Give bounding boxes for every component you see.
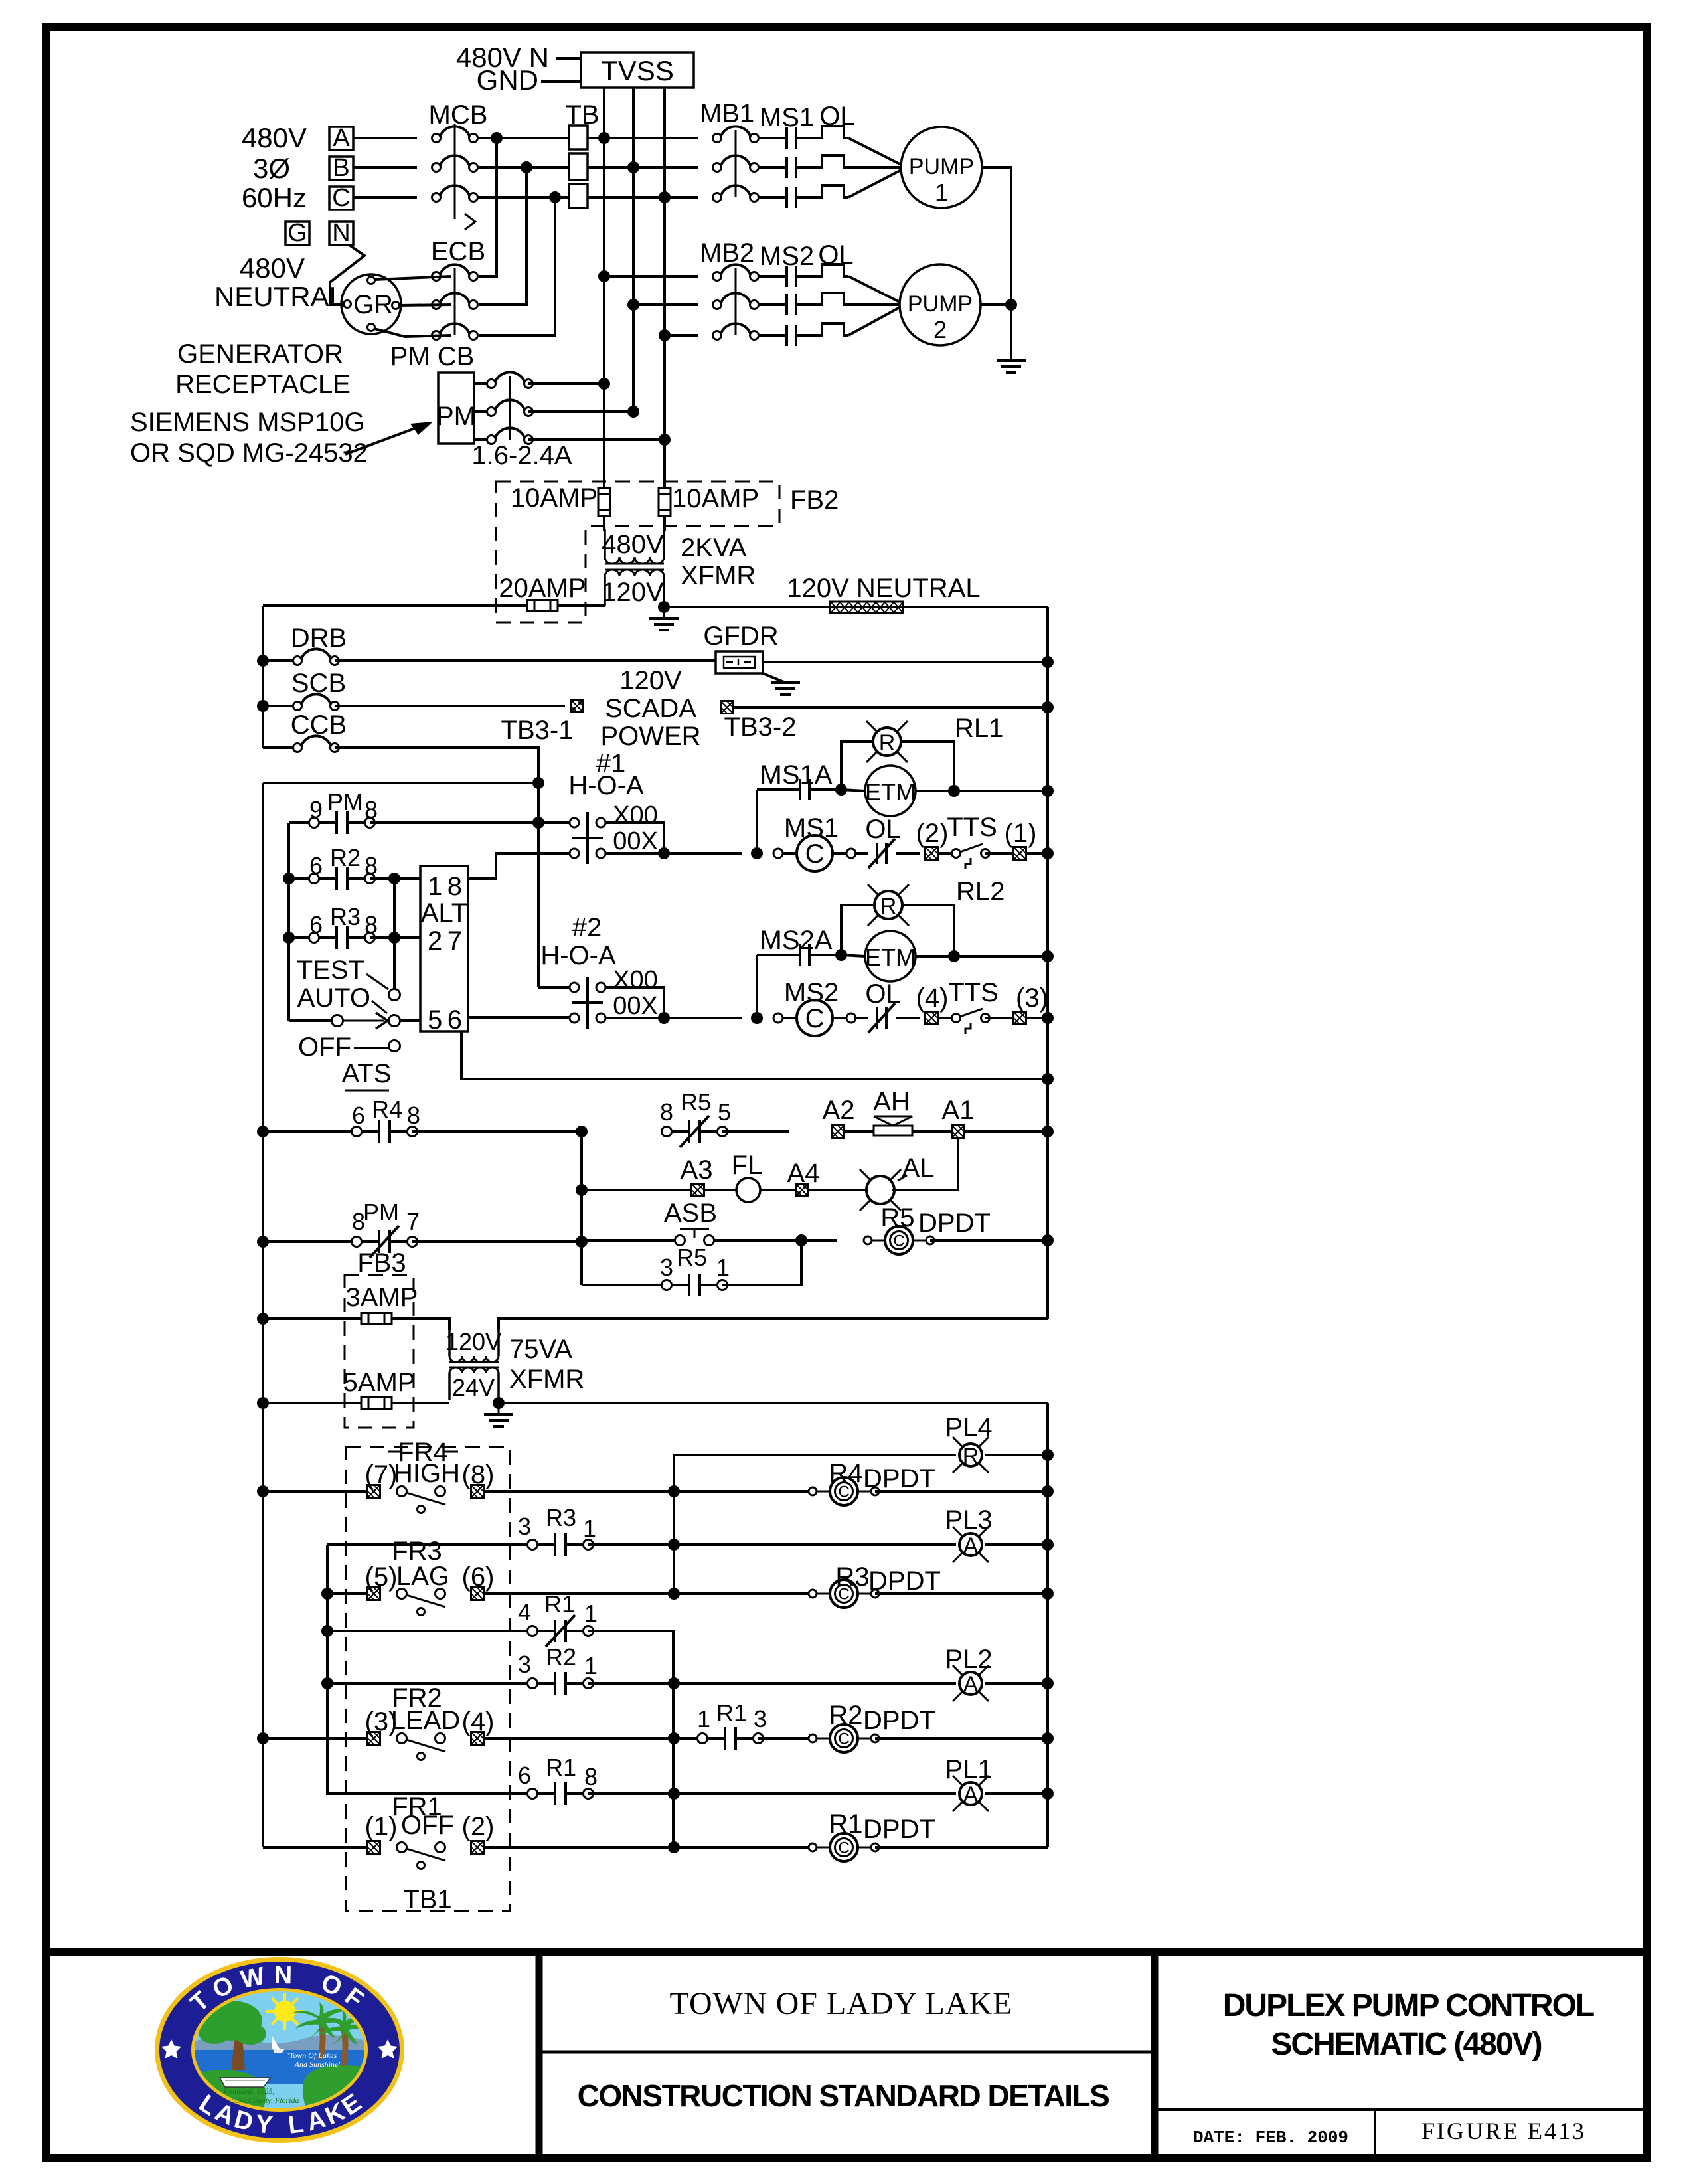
- svg-text:FB2: FB2: [790, 485, 839, 515]
- node N: [329, 222, 353, 245]
- relay light RL2: [841, 905, 874, 955]
- svg-text:GND: GND: [477, 64, 538, 96]
- svg-text:24V: 24V: [452, 1374, 495, 1401]
- svg-text:FL: FL: [732, 1151, 763, 1180]
- svg-text:RL2: RL2: [956, 877, 1005, 906]
- svg-text:DPDT: DPDT: [868, 1566, 941, 1596]
- thermal switch TTS 2: [937, 1017, 956, 1019]
- svg-text:XFMR: XFMR: [509, 1365, 584, 1394]
- rung MS2 coil: [605, 1017, 742, 1019]
- breaker CCB rung: [263, 746, 297, 749]
- wire ALT pin7 to HOA2: [468, 1016, 570, 1019]
- svg-text:TTS: TTS: [948, 978, 999, 1007]
- pushbutton ASB: [582, 1239, 675, 1242]
- title block divider 2: [1151, 1952, 1159, 2158]
- terminal (2): [926, 847, 938, 860]
- svg-text:ECB: ECB: [431, 237, 485, 266]
- svg-text:10AMP: 10AMP: [511, 483, 598, 513]
- svg-text:R4: R4: [829, 1459, 862, 1488]
- junction 24V secondary: [493, 1397, 505, 1409]
- svg-text:TOWN OF LADY LAKE: TOWN OF LADY LAKE: [670, 1986, 1013, 2021]
- wire phase B to MCB: [353, 166, 417, 169]
- motor PUMP 1: [901, 127, 982, 208]
- terminal TB3-2: [721, 701, 734, 714]
- wire ECB to A: [479, 138, 497, 276]
- wire TVSS drop 3: [663, 88, 666, 488]
- svg-text:TB3-1: TB3-1: [501, 716, 574, 745]
- breaker DRB rung: [257, 655, 269, 667]
- svg-text:N: N: [332, 219, 350, 247]
- wire ECB to B: [479, 167, 526, 305]
- overload contact OL 1: [854, 852, 868, 855]
- wire GR bottom to ECB: [374, 329, 451, 337]
- svg-text:SIEMENS MSP10G: SIEMENS MSP10G: [130, 408, 364, 437]
- coil MS2: [773, 1000, 856, 1036]
- svg-text:OFF: OFF: [298, 1033, 351, 1062]
- wire to 75VA primary: [392, 1319, 449, 1330]
- svg-text:120V: 120V: [602, 578, 664, 607]
- svg-text:6: 6: [309, 852, 323, 879]
- svg-text:C: C: [332, 184, 350, 212]
- svg-text:PM: PM: [436, 402, 476, 431]
- svg-text:CCB: CCB: [291, 711, 347, 740]
- svg-text:10AMP: 10AMP: [672, 484, 759, 513]
- wire phase A to MCB: [353, 137, 417, 139]
- svg-text:DPDT: DPDT: [918, 1209, 991, 1238]
- svg-text:8: 8: [660, 1098, 673, 1126]
- svg-text:OL: OL: [865, 815, 900, 844]
- wire MCB-C to TB: [477, 196, 569, 199]
- wires converge to pump 2: [848, 276, 900, 302]
- contact R1 4-1 NC rung: [321, 1625, 333, 1637]
- transformer 75VA primary 120V: [448, 1330, 451, 1356]
- coil R5 DPDT: [801, 1239, 837, 1242]
- svg-text:PM: PM: [327, 788, 363, 815]
- svg-text:ETM: ETM: [865, 778, 916, 805]
- svg-text:DRB: DRB: [291, 624, 347, 653]
- svg-text:R1: R1: [716, 1699, 747, 1726]
- title block right divider: [1155, 2108, 1647, 2111]
- wires converge to pump 1: [848, 138, 901, 165]
- svg-text:9: 9: [309, 796, 323, 823]
- terminal A4: [760, 1189, 796, 1191]
- svg-text:MS1A: MS1A: [760, 760, 833, 790]
- contact R5 3-1 rung: [582, 1284, 661, 1286]
- wire TVSS drop 1: [603, 88, 605, 488]
- pilot light PL2: [674, 1682, 956, 1685]
- switch position TEST: [389, 989, 400, 1001]
- wire taps to MB2: [604, 275, 698, 278]
- node A: [329, 127, 353, 150]
- wire GR top to ECB: [374, 276, 451, 280]
- terminal strip TB1 dashed: [346, 1447, 510, 1911]
- svg-text:1: 1: [697, 1705, 710, 1732]
- svg-text:X00: X00: [613, 801, 658, 829]
- svg-text:ATS: ATS: [342, 1059, 392, 1088]
- svg-text:3Ø: 3Ø: [253, 153, 290, 184]
- float switch FR4 HIGH rung: [257, 1485, 269, 1497]
- node G: [285, 222, 309, 245]
- wire A1 to AL: [892, 1137, 958, 1190]
- svg-text:60Hz: 60Hz: [242, 182, 307, 213]
- wire MCB-A to TB: [477, 137, 569, 139]
- svg-text:H-O-A: H-O-A: [540, 941, 616, 970]
- svg-text:X00: X00: [613, 966, 658, 994]
- wire GFDR to rail: [763, 661, 1048, 663]
- junction TVSS-B: [627, 161, 639, 173]
- svg-text:(2): (2): [462, 1812, 495, 1841]
- svg-text:DPDT: DPDT: [863, 1706, 935, 1735]
- float switch FR1 OFF rung: [263, 1846, 368, 1849]
- contact R3 6-8 rung: [283, 932, 295, 944]
- rung FL light: [576, 1184, 588, 1196]
- wire ECB to C: [479, 197, 555, 335]
- terminal A3: [692, 1184, 704, 1197]
- contact PM 8-7 NC rung: [257, 1236, 269, 1248]
- wire pump2 to ground: [981, 303, 1011, 306]
- ground symbol 75VA: [498, 1403, 500, 1414]
- junction PM row1: [598, 378, 610, 390]
- junction A-ECB: [491, 132, 503, 144]
- svg-text:MS1: MS1: [784, 813, 839, 843]
- svg-text:R3: R3: [546, 1504, 576, 1531]
- fuse 10AMP phase A: [598, 487, 610, 517]
- contact R2 6-8 rung: [283, 873, 295, 884]
- svg-text:PL2: PL2: [945, 1645, 992, 1674]
- fuse block FB3 dashed: [345, 1275, 414, 1428]
- svg-text:00X: 00X: [613, 992, 658, 1020]
- ground symbol pumps: [997, 361, 1026, 373]
- svg-text:6: 6: [352, 1102, 365, 1129]
- svg-text:(1): (1): [1005, 819, 1037, 848]
- svg-text:MB2: MB2: [700, 238, 754, 268]
- left selector column: [287, 823, 290, 1021]
- coil MS1: [773, 835, 856, 871]
- meter ETM 2: [841, 955, 865, 956]
- svg-text:R3: R3: [330, 903, 361, 930]
- svg-text:ETM: ETM: [865, 944, 916, 971]
- svg-text:MB1: MB1: [700, 99, 754, 128]
- svg-text:TVSS: TVSS: [601, 55, 674, 86]
- svg-text:PM: PM: [363, 1199, 399, 1226]
- svg-text:(1): (1): [365, 1812, 398, 1841]
- svg-text:MCB: MCB: [429, 100, 488, 129]
- svg-text:3: 3: [754, 1705, 767, 1732]
- wire TB3-2 to rail: [733, 706, 1048, 709]
- svg-text:R5: R5: [880, 1203, 914, 1232]
- title block mid divider: [539, 2051, 1155, 2054]
- wire TB to MB1: [588, 137, 698, 139]
- alarm light AL: [808, 1189, 870, 1191]
- pilot light PL4: [674, 1455, 956, 1491]
- svg-text:3: 3: [518, 1651, 531, 1678]
- wire MCB-B to TB: [477, 166, 569, 169]
- svg-text:CONSTRUCTION STANDARD DETAILS: CONSTRUCTION STANDARD DETAILS: [578, 2078, 1109, 2113]
- junction xfmr neutral: [658, 601, 670, 613]
- wire GR right to ECB: [399, 305, 451, 305]
- svg-text:A: A: [963, 1533, 979, 1558]
- svg-text:480V: 480V: [602, 530, 664, 559]
- svg-text:R: R: [880, 894, 897, 919]
- svg-text:NEUTRAL: NEUTRAL: [214, 281, 345, 312]
- vertical PL column segment B: [672, 1631, 675, 1847]
- rung MS1 coil: [605, 852, 742, 855]
- junction TVSS drop MB2 taps: [598, 270, 610, 282]
- svg-text:A: A: [333, 124, 350, 152]
- svg-text:7: 7: [447, 926, 462, 956]
- junction TVSS-A: [598, 132, 610, 144]
- left rail 120V upper: [262, 606, 264, 748]
- svg-text:R1: R1: [829, 1809, 862, 1839]
- right rail 24V: [1046, 1403, 1049, 1847]
- wires fuses to xfmr: [603, 517, 605, 531]
- svg-text:1: 1: [428, 872, 442, 901]
- thermal switch TTS 1: [937, 852, 956, 855]
- transformer 2KVA secondary 120V: [605, 570, 664, 576]
- svg-text:LAG: LAG: [396, 1562, 449, 1591]
- svg-text:DPDT: DPDT: [863, 1815, 935, 1844]
- wire primary right to rail: [499, 1319, 1048, 1330]
- svg-text:1: 1: [716, 1254, 730, 1281]
- test column: [393, 879, 396, 989]
- wire 120V neutral: [664, 606, 1048, 608]
- svg-text:OFF: OFF: [401, 1811, 454, 1840]
- svg-text:Y: Y: [254, 2110, 274, 2140]
- svg-text:"Town Of Lakes: "Town Of Lakes: [286, 2051, 337, 2060]
- switch position OFF: [389, 1041, 400, 1052]
- svg-text:5AMP: 5AMP: [343, 1368, 416, 1397]
- svg-text:6: 6: [518, 1762, 531, 1789]
- contact R2 3-1 rung: [321, 1677, 333, 1689]
- svg-text:B: B: [333, 154, 349, 182]
- svg-text:MS2: MS2: [784, 978, 839, 1007]
- title block divider 1: [536, 1952, 543, 2158]
- svg-text:(4): (4): [462, 1707, 495, 1736]
- svg-text:A2: A2: [823, 1096, 855, 1125]
- svg-text:1: 1: [584, 1600, 598, 1627]
- alarm column: [580, 1132, 583, 1285]
- svg-text:HIGH: HIGH: [394, 1459, 460, 1488]
- svg-text:3AMP: 3AMP: [346, 1283, 418, 1312]
- svg-text:N: N: [274, 1962, 292, 1989]
- coil R3 DPDT: [674, 1592, 813, 1595]
- contact R3 3-1 rung: [327, 1543, 532, 1546]
- svg-text:(6): (6): [462, 1562, 495, 1592]
- svg-text:PL3: PL3: [945, 1505, 992, 1535]
- svg-text:1.6-2.4A: 1.6-2.4A: [471, 441, 572, 470]
- svg-text:R: R: [963, 1444, 979, 1469]
- svg-text:R2: R2: [829, 1701, 862, 1730]
- svg-text:3: 3: [518, 1513, 531, 1540]
- svg-text:8: 8: [407, 1102, 420, 1129]
- wire X00 jog 2: [605, 987, 664, 1018]
- svg-text:#2: #2: [572, 913, 602, 942]
- TVSS surge suppressor: [581, 52, 694, 88]
- svg-text:75VA: 75VA: [509, 1335, 572, 1364]
- ground symbol xfmr: [663, 607, 665, 618]
- svg-text:MS2A: MS2A: [760, 926, 833, 955]
- node B: [329, 157, 353, 180]
- svg-text:ALT: ALT: [421, 898, 467, 928]
- svg-text:DUPLEX PUMP CONTROL: DUPLEX PUMP CONTROL: [1223, 1988, 1594, 2023]
- svg-text:R5: R5: [677, 1244, 707, 1271]
- svg-text:PUMP: PUMP: [908, 292, 973, 317]
- svg-text:8: 8: [584, 1763, 598, 1790]
- title block date/figure divider: [1374, 2110, 1376, 2158]
- svg-text:A: A: [963, 1672, 979, 1697]
- svg-text:TEST: TEST: [297, 956, 364, 985]
- contact R5 8-5 NC: [662, 1116, 728, 1147]
- contact MS2A rung: [756, 955, 758, 1018]
- svg-text:Founded: 1925,: Founded: 1925,: [223, 2086, 275, 2096]
- transformer 2KVA primary 480V: [604, 529, 606, 557]
- svg-text:DPDT: DPDT: [863, 1464, 935, 1493]
- wire X00 jog: [605, 823, 664, 853]
- svg-text:480V: 480V: [240, 252, 305, 284]
- svg-text:(2): (2): [916, 819, 949, 848]
- transformer 75VA secondary 24V: [449, 1367, 499, 1373]
- svg-text:8: 8: [364, 911, 378, 938]
- junction B-ECB: [521, 161, 532, 173]
- svg-text:H-O-A: H-O-A: [568, 771, 644, 800]
- svg-text:(7): (7): [365, 1460, 398, 1489]
- svg-text:XFMR: XFMR: [681, 561, 756, 590]
- fuse 3AMP: [257, 1313, 269, 1325]
- wire TVSS drop 2: [632, 88, 635, 412]
- terminal (4): [926, 1012, 938, 1025]
- coil R1 DPDT: [674, 1846, 813, 1849]
- svg-text:4: 4: [518, 1598, 531, 1626]
- svg-text:PL4: PL4: [945, 1413, 992, 1442]
- svg-text:2KVA: 2KVA: [681, 533, 747, 562]
- right rail neutral: [1046, 607, 1049, 1319]
- wire phase C to MCB: [353, 196, 417, 199]
- alternator relay ALT: [420, 866, 468, 1031]
- svg-text:480V: 480V: [242, 122, 307, 153]
- svg-text:AUTO: AUTO: [297, 983, 370, 1013]
- svg-text:OL: OL: [865, 979, 900, 1009]
- svg-text:R1: R1: [544, 1590, 575, 1618]
- svg-text:1: 1: [584, 1652, 598, 1679]
- junction PM row3: [659, 434, 671, 446]
- svg-text:8: 8: [447, 872, 462, 901]
- svg-text:R2: R2: [546, 1643, 576, 1671]
- svg-text:TTS: TTS: [947, 813, 997, 842]
- svg-text:OR SQD MG-24532: OR SQD MG-24532: [130, 438, 368, 467]
- svg-text:(5): (5): [365, 1562, 398, 1592]
- svg-text:A3: A3: [681, 1155, 713, 1185]
- svg-text:20AMP: 20AMP: [499, 574, 586, 603]
- svg-text:R4: R4: [372, 1096, 402, 1123]
- svg-text:DATE: FEB. 2009: DATE: FEB. 2009: [1193, 2128, 1348, 2147]
- relay light RL1: [841, 742, 872, 790]
- terminal (3): [1014, 1012, 1026, 1025]
- junction pump ground bus: [1005, 299, 1017, 311]
- selector switch HOA 1: [570, 812, 605, 864]
- generator receptacle GR: [341, 274, 401, 334]
- svg-text:(3): (3): [1016, 983, 1048, 1013]
- neutral hatched marker: [830, 602, 903, 613]
- svg-text:R2: R2: [330, 844, 361, 871]
- svg-text:FB3: FB3: [357, 1248, 406, 1278]
- svg-text:8: 8: [364, 852, 378, 879]
- svg-text:(4): (4): [916, 983, 949, 1013]
- svg-text:Lake County, Florida: Lake County, Florida: [230, 2096, 299, 2105]
- wire 24V to right rail: [499, 1402, 1048, 1404]
- svg-text:R1: R1: [546, 1754, 576, 1781]
- svg-text:120V: 120V: [445, 1328, 501, 1355]
- selector switch HOA 2: [538, 986, 570, 989]
- svg-text:RL1: RL1: [955, 714, 1003, 743]
- svg-text:G: G: [287, 219, 307, 247]
- title block top line: [42, 1948, 1651, 1956]
- coil R4 DPDT: [674, 1490, 813, 1493]
- PM CB contacts: [474, 382, 492, 385]
- terminal A2: [832, 1126, 845, 1138]
- svg-text:POWER: POWER: [600, 722, 700, 751]
- svg-text:8: 8: [364, 796, 378, 823]
- wire N to GR: [330, 245, 364, 305]
- wire to ground: [1010, 305, 1012, 361]
- svg-text:120V: 120V: [619, 666, 682, 695]
- svg-text:And Sunshine": And Sunshine": [294, 2060, 343, 2069]
- svg-text:A1: A1: [942, 1096, 975, 1125]
- svg-text:PL1: PL1: [945, 1755, 992, 1784]
- pilot light PL3: [674, 1543, 956, 1546]
- wire secondary hot with 20AMP fuse: [263, 604, 527, 607]
- wire pump1 to ground bus: [982, 167, 1011, 305]
- svg-text:AL: AL: [902, 1153, 935, 1183]
- svg-text:PM CB: PM CB: [390, 342, 475, 371]
- terminal TB3-1: [571, 700, 584, 713]
- svg-text:120V NEUTRAL: 120V NEUTRAL: [787, 574, 980, 603]
- svg-text:2: 2: [933, 316, 947, 343]
- meter ETM 1: [841, 790, 865, 791]
- node C: [329, 187, 353, 210]
- wire control feeder: [263, 782, 538, 784]
- logo Town of Lady Lake seal: [155, 1957, 404, 2143]
- svg-text:(8): (8): [462, 1460, 495, 1489]
- overload contact OL 2: [854, 1017, 868, 1019]
- contact PM 9-8 rung: [289, 821, 314, 824]
- pilot light PL1: [674, 1792, 956, 1795]
- 75VA core: [449, 1361, 499, 1363]
- junction C-ECB: [549, 191, 561, 203]
- flow light FL: [704, 1189, 736, 1191]
- left rail lower: [262, 783, 264, 1847]
- wire A2 to AH: [844, 1130, 874, 1133]
- svg-text:2: 2: [428, 926, 442, 956]
- contact R1 6-8 rung: [327, 1792, 532, 1794]
- svg-text:6: 6: [447, 1005, 462, 1035]
- svg-text:GFDR: GFDR: [703, 622, 778, 651]
- svg-text:PUMP: PUMP: [909, 154, 974, 179]
- terminal A1: [912, 1130, 952, 1133]
- svg-text:R5: R5: [681, 1088, 711, 1116]
- svg-text:A: A: [963, 1782, 979, 1807]
- svg-text:LEAD: LEAD: [391, 1706, 461, 1735]
- svg-text:5: 5: [718, 1098, 731, 1126]
- GFDR ground: [763, 673, 785, 683]
- vertical PL column segment A: [673, 1455, 675, 1594]
- svg-text:R3: R3: [835, 1562, 869, 1592]
- svg-text:3: 3: [660, 1254, 673, 1281]
- svg-text:ASB: ASB: [664, 1199, 717, 1228]
- svg-text:A4: A4: [787, 1159, 820, 1188]
- svg-text:TB3-2: TB3-2: [724, 713, 797, 742]
- svg-text:SCHEMATIC (480V): SCHEMATIC (480V): [1271, 2027, 1541, 2062]
- coil R2 DPDT: [809, 1724, 879, 1752]
